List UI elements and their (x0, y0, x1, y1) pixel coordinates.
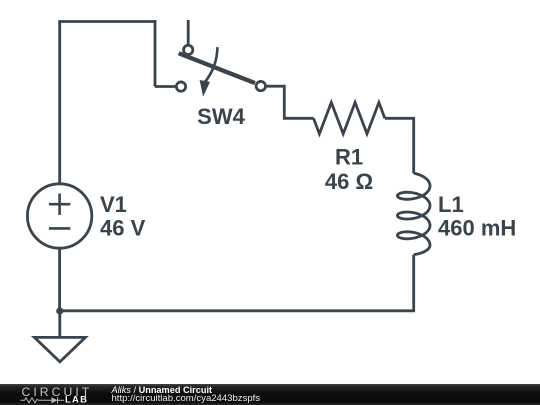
junction node (56, 307, 63, 314)
voltage source V1 (27, 184, 91, 248)
ground (34, 337, 85, 361)
footer bar (0, 384, 540, 405)
wire (58, 22, 61, 184)
svg-text:46 Ω: 46 Ω (325, 169, 373, 194)
switch SW4 (176, 20, 265, 97)
wire (154, 20, 157, 86)
inductor L1 (397, 173, 430, 255)
svg-text:V1: V1 (100, 192, 127, 217)
wire (266, 86, 313, 118)
svg-text:R1: R1 (335, 145, 363, 170)
wire (60, 255, 414, 311)
svg-text:http://circuitlab.com/cya2443b: http://circuitlab.com/cya2443bzspfs (112, 393, 261, 404)
wire (58, 311, 61, 337)
wire (58, 248, 61, 311)
wire (58, 20, 156, 23)
resistor R1 (314, 103, 385, 134)
svg-text:L1: L1 (438, 192, 464, 217)
wire (155, 85, 176, 88)
svg-text:46 V: 46 V (100, 216, 146, 241)
svg-text:460 mH: 460 mH (438, 215, 516, 240)
circuitlab logo schematic (21, 397, 65, 403)
svg-text:SW4: SW4 (197, 104, 245, 129)
svg-text:LAB: LAB (65, 395, 88, 405)
wire (385, 118, 414, 173)
